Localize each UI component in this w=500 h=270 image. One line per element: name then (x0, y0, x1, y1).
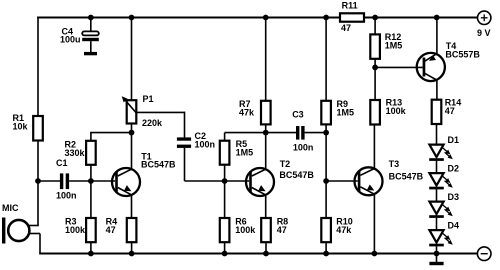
LED D1 triangle (429, 145, 443, 157)
wire ground stub (436, 254, 438, 263)
wire R2 bottom to base line (90, 165, 92, 181)
potentiometer P1 wiper arrowhead (120, 94, 128, 102)
transistor T2 collector diagonal (252, 169, 266, 176)
svg-text:D3: D3 (448, 192, 460, 202)
transistor T2 emitter diagonal (252, 188, 266, 195)
wire D1 to D2 (436, 161, 438, 173)
wire P1 wiper horizontal to C2 (136, 111, 185, 113)
LED D3 light arrow 1 (442, 205, 452, 214)
wire R3 bottom lead (90, 242, 92, 253)
wire T3 emitter to bottom rail (373, 194, 375, 253)
wire R2 top vertical (90, 132, 92, 141)
wire T2 collector vertical (265, 133, 267, 170)
microphone MIC element bar (2, 218, 5, 244)
wire T1 emitter to R4 (131, 195, 133, 218)
wire T4 emitter vertical to top rail (436, 18, 438, 55)
transistor T1 body (112, 168, 140, 196)
node junction P1/top rail (129, 15, 135, 21)
wire C1 left lead (38, 180, 60, 182)
node junction R4/bottom rail (129, 251, 135, 257)
wire C2 to T2 base (185, 180, 250, 182)
wire C2 bottom vertical (184, 148, 186, 181)
battery negative minus sign (481, 253, 488, 255)
wire P1 bottom to collector node (131, 124, 133, 170)
wire C4 bottom lead (90, 41, 92, 52)
wire R7 bottom lead (265, 124, 267, 132)
svg-text:100k: 100k (235, 225, 256, 235)
wire T3 collector vertical to R13 (373, 125, 375, 169)
wire C2 top vertical (184, 112, 186, 138)
svg-text:330k: 330k (65, 148, 86, 158)
node junction C3/R9/T3 base line (323, 130, 329, 136)
svg-text:47: 47 (341, 23, 351, 33)
transistor T3 collector diagonal (360, 169, 374, 176)
wire C3 right lead (305, 132, 327, 134)
wire C3 left lead (266, 132, 296, 134)
transistor T3 body (355, 167, 383, 195)
LED D1 cathode bar (429, 158, 444, 161)
wire R12 top lead (374, 18, 376, 35)
resistor R14 (432, 100, 442, 124)
wire R9 top lead (325, 18, 327, 101)
transistor T1 emitter arrowhead (124, 185, 133, 194)
capacitor C2 bottom plate (177, 145, 191, 148)
node junction C4/top rail (88, 15, 94, 21)
wire R1 bottom to base node line (37, 141, 39, 226)
transistor T3 base bar (358, 171, 361, 192)
LED D1 light arrow 2 (445, 152, 455, 161)
wire bottom rail (39, 253, 477, 255)
wire P1 top lead (131, 18, 133, 101)
node junction R12/R13/T4 base (372, 65, 378, 71)
svg-text:T2: T2 (280, 159, 291, 169)
wire MIC lower stub (29, 233, 40, 235)
svg-text:47k: 47k (336, 225, 352, 235)
svg-text:100n: 100n (195, 140, 216, 150)
resistor R4 (127, 218, 137, 242)
capacitor C2 top plate (177, 137, 191, 140)
transistor T1 base bar (115, 172, 118, 193)
transistor T4 emitter diagonal (425, 54, 438, 62)
LED D2 light arrow 1 (442, 176, 452, 185)
svg-text:220k: 220k (142, 118, 163, 128)
wire R6 top lead (224, 181, 226, 218)
transistor T2 emitter arrowhead (258, 185, 267, 194)
wire R5 top vertical (224, 133, 226, 141)
svg-text:100u: 100u (60, 35, 81, 45)
resistor R13 (370, 100, 380, 125)
node junction R8/bottom rail (263, 251, 269, 257)
potentiometer P1 body (127, 100, 137, 123)
node junction R1/C1/MIC (35, 178, 41, 184)
node junction R6/bottom rail (222, 251, 228, 257)
transistor T1 collector diagonal (118, 169, 132, 176)
transistor T3 emitter diagonal (360, 187, 374, 194)
svg-text:100n: 100n (293, 143, 314, 153)
ground symbol at bottom rail (429, 262, 443, 265)
svg-text:9 V: 9 V (477, 28, 491, 38)
battery positive plus sign (481, 14, 488, 21)
battery positive terminal (478, 11, 491, 24)
svg-text:47: 47 (445, 106, 455, 116)
svg-text:1M5: 1M5 (337, 107, 355, 117)
capacitor C1 right plate (66, 173, 69, 189)
svg-text:100n: 100n (56, 191, 77, 201)
svg-text:10k: 10k (13, 121, 29, 131)
node junction R7/top rail (263, 15, 269, 21)
wire R10 top lead (325, 181, 327, 218)
ground symbol at C4 (84, 52, 97, 55)
resistor R7 (261, 101, 271, 125)
transistor T4 collector diagonal (425, 73, 438, 80)
wire top rail right segment (364, 17, 478, 19)
LED D2 triangle (429, 173, 443, 185)
svg-text:C1: C1 (56, 158, 68, 168)
LED D4 light arrow 1 (442, 233, 452, 242)
capacitor C4 positive plate (82, 31, 99, 35)
resistor R11 (340, 13, 364, 21)
transistor T4 body (417, 53, 445, 81)
svg-text:D1: D1 (448, 135, 460, 145)
capacitor C3 right plate (301, 126, 304, 140)
transistor T2 base bar (249, 172, 252, 193)
LED D4 cathode bar (429, 244, 444, 247)
LED D4 triangle (429, 230, 443, 242)
wire T2 emitter to R8 (265, 195, 267, 218)
node junction C1/R2/R3/T1 base (88, 178, 94, 184)
node junction R3/bottom rail (88, 251, 94, 257)
wire R12 bottom lead (374, 59, 376, 68)
transistor T3 emitter arrowhead (367, 184, 376, 193)
wire R5 bottom lead (224, 165, 226, 181)
node junction T4 emitter/top rail (434, 15, 440, 21)
capacitor C1 left plate (60, 173, 63, 189)
wire MIC lower vertical to bottom rail (39, 234, 41, 254)
svg-text:BC547B: BC547B (141, 159, 176, 169)
node junction R10/bottom rail (323, 251, 329, 257)
svg-text:D2: D2 (448, 164, 460, 174)
LED D3 light arrow 2 (445, 209, 455, 218)
svg-text:D4: D4 (448, 221, 460, 231)
wire R2 top horizontal (91, 132, 132, 134)
LED D4 light arrow 2 (445, 238, 455, 247)
transistor T1 emitter diagonal (118, 188, 132, 195)
LED D3 cathode bar (429, 215, 444, 218)
wire R9 node down to T3 base node (325, 133, 327, 181)
resistor R8 (261, 218, 271, 242)
wire C1 right lead to T1 base (69, 180, 115, 182)
wire R7 top lead (265, 18, 267, 101)
wire left vertical from top rail to R1 (37, 17, 39, 117)
LED D1 light arrow 1 (442, 148, 452, 157)
wire T4 collector to R14 (436, 80, 438, 100)
wire R13 top lead (374, 67, 376, 100)
wire T3 base lead (326, 180, 358, 182)
node junction LED column/bottom rail (434, 251, 440, 257)
wire R9 bottom lead (325, 124, 327, 132)
svg-text:47k: 47k (239, 107, 255, 117)
wire C4 top lead (90, 18, 92, 32)
svg-text:1M5: 1M5 (236, 147, 254, 157)
potentiometer P1 wiper arrow line (124, 99, 136, 113)
node junction R10/T3 base (323, 178, 329, 184)
svg-text:47: 47 (106, 225, 116, 235)
svg-text:47: 47 (277, 225, 287, 235)
resistor R5 (220, 141, 230, 165)
node junction R9/top rail (323, 15, 329, 21)
svg-text:100k: 100k (65, 225, 86, 235)
resistor R10 (321, 218, 331, 242)
wire MIC upper stub (29, 225, 39, 227)
capacitor C3 left plate (296, 126, 299, 140)
resistor R1 (33, 116, 43, 141)
wire D3 to D4 (436, 218, 438, 230)
svg-text:MIC: MIC (2, 203, 19, 213)
resistor R2 (86, 141, 96, 165)
resistor R6 (220, 218, 230, 242)
svg-text:T3: T3 (389, 159, 400, 169)
svg-text:BC557B: BC557B (445, 50, 480, 60)
svg-text:BC547B: BC547B (389, 171, 424, 181)
wire R8 bottom lead (265, 242, 267, 253)
node junction R12/top rail (372, 15, 378, 21)
wire D2 to D3 (436, 189, 438, 201)
capacitor C4 negative plate (82, 38, 99, 41)
node junction T3 emitter/bottom rail (372, 251, 378, 257)
transistor T4 base bar (423, 58, 426, 77)
wire R6 bottom lead (224, 242, 226, 253)
battery negative terminal (477, 247, 491, 261)
svg-text:R11: R11 (342, 1, 358, 11)
LED D2 cathode bar (429, 187, 444, 190)
wire R14 bottom to D1 (436, 124, 438, 145)
LED D2 light arrow 2 (445, 181, 455, 190)
svg-text:P1: P1 (143, 94, 154, 104)
svg-text:BC547B: BC547B (279, 170, 314, 180)
transistor T4 emitter arrowhead (PNP) (427, 55, 435, 63)
wire R3 top lead (90, 181, 92, 218)
node junction R7/C3/T2 collector (263, 130, 269, 136)
node junction P1/R2/T1 collector (129, 130, 135, 136)
resistor R9 (321, 101, 331, 125)
resistor R12 (370, 34, 380, 58)
wire R10 bottom lead (325, 242, 327, 253)
microphone MIC body (8, 220, 29, 241)
node junction C2/R5/R6/T2 base (222, 178, 228, 184)
LED D3 triangle (429, 202, 443, 214)
wire D4 to bottom rail (436, 246, 438, 253)
svg-text:100k: 100k (386, 106, 407, 116)
transistor T2 body (246, 168, 274, 196)
wire T4 base lead (375, 66, 423, 68)
svg-text:C3: C3 (292, 110, 304, 120)
resistor R3 (86, 218, 96, 242)
wire R4 bottom lead (131, 242, 133, 253)
wire R5 top horizontal to R7 node (225, 132, 266, 134)
svg-text:1M5: 1M5 (385, 41, 403, 51)
wire top rail left segment (37, 17, 340, 19)
